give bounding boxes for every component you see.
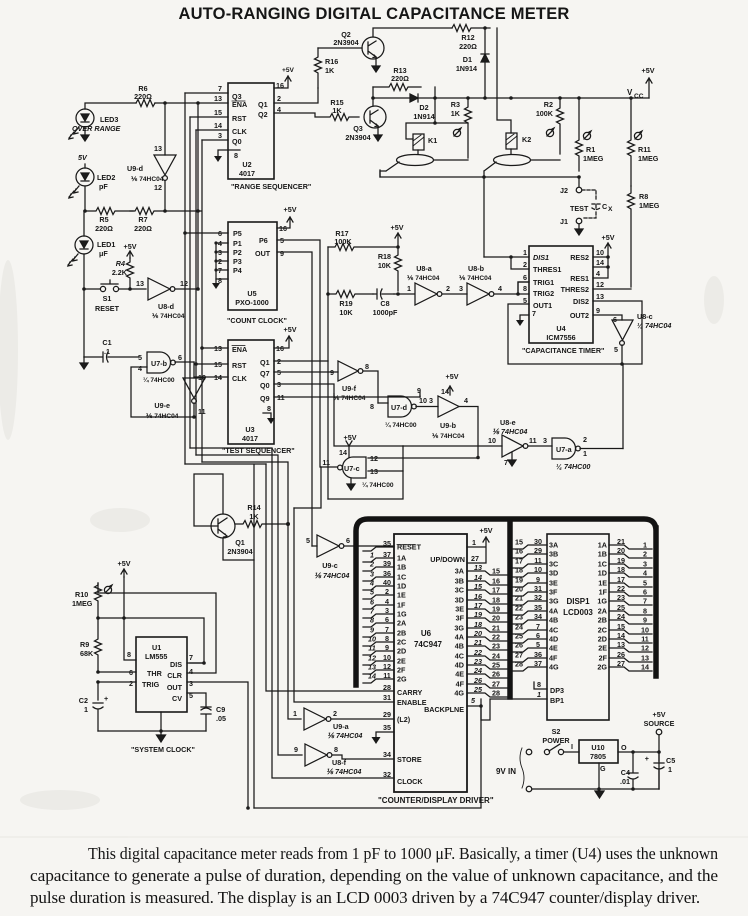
svg-text:THRES1: THRES1: [533, 265, 561, 274]
svg-text:R18: R18: [378, 252, 391, 261]
svg-text:7: 7: [189, 653, 193, 662]
bus turn x=196 to x=278: [196, 455, 302, 755]
svg-text:LED2: LED2: [97, 173, 115, 182]
svg-text:21: 21: [473, 638, 482, 647]
svg-text:U4: U4: [556, 324, 565, 333]
IC U3 4017 test sequencer: [214, 340, 285, 444]
svg-text:LCD003: LCD003: [563, 608, 593, 617]
svg-text:4A: 4A: [549, 607, 558, 616]
svg-text:32: 32: [383, 770, 391, 779]
svg-text:1000pF: 1000pF: [373, 308, 398, 317]
node wire to K1 coil: [406, 123, 468, 139]
svg-text:"TEST SEQUENCER": "TEST SEQUENCER": [222, 446, 295, 455]
svg-text:3E: 3E: [455, 605, 464, 614]
svg-text:U8-a: U8-a: [416, 264, 433, 273]
svg-text:THR: THR: [147, 669, 163, 678]
svg-text:19: 19: [617, 556, 625, 565]
trimmer arrow R11: [634, 131, 642, 140]
svg-text:8: 8: [365, 362, 369, 371]
Q2 emitter ground: [372, 57, 380, 72]
svg-text:BP1: BP1: [550, 696, 564, 705]
svg-text:2C: 2C: [397, 638, 406, 647]
wire U8-b out to TRIG: [494, 282, 529, 294]
wire Q3 collector up to R13: [372, 87, 374, 106]
U2 pin16 +5V: [274, 76, 291, 88]
svg-text:27: 27: [471, 554, 479, 563]
wire U1 DIS pin7: [187, 662, 204, 664]
svg-text:4F: 4F: [456, 680, 465, 689]
svg-text:17: 17: [474, 601, 483, 610]
svg-text:7805: 7805: [590, 752, 606, 761]
resistor R4: [112, 258, 134, 287]
bus turn x=190 to x=272: [190, 448, 394, 778]
svg-text:1MEG: 1MEG: [638, 154, 659, 163]
node junction 85,211: [83, 209, 87, 213]
svg-text:6: 6: [178, 353, 182, 362]
svg-text:DISP1: DISP1: [566, 597, 590, 606]
svg-text:7: 7: [218, 84, 222, 93]
svg-text:1: 1: [472, 538, 476, 547]
wire U5 OUT to vertical: [277, 252, 312, 546]
svg-text:3: 3: [218, 131, 222, 140]
node junction at 198,103: [196, 101, 200, 105]
svg-text:31: 31: [534, 584, 542, 593]
inverter U8-d: [128, 278, 200, 320]
svg-text:1: 1: [84, 705, 88, 714]
svg-text:20: 20: [473, 629, 482, 638]
svg-text:11: 11: [641, 635, 649, 644]
svg-text:29: 29: [383, 710, 391, 719]
svg-text:13: 13: [596, 292, 604, 301]
resistor R3: [451, 98, 472, 158]
svg-text:D1: D1: [463, 55, 472, 64]
svg-text:1B: 1B: [598, 550, 607, 559]
svg-text:⅙ 74HC04: ⅙ 74HC04: [152, 312, 185, 320]
inverter U9-d: [127, 144, 176, 192]
svg-text:37: 37: [534, 659, 542, 668]
svg-text:68K: 68K: [80, 649, 94, 658]
svg-text:U9-e: U9-e: [154, 401, 170, 410]
inverter U8-e: [403, 418, 552, 467]
svg-text:2E: 2E: [598, 644, 607, 653]
svg-text:40: 40: [383, 578, 391, 587]
svg-text:9: 9: [385, 643, 389, 652]
IC U6 74C947 counter/display driver: [394, 534, 467, 792]
test node rail: [380, 170, 579, 177]
bus vertical x=196: [195, 130, 197, 455]
svg-text:3: 3: [643, 560, 647, 569]
wire THRES2 to R8 chain: [593, 288, 631, 290]
svg-text:3C: 3C: [455, 586, 464, 595]
svg-text:2D: 2D: [397, 647, 406, 656]
capacitor C5: [645, 750, 675, 789]
svg-text:2B: 2B: [397, 629, 406, 638]
svg-text:1MEG: 1MEG: [639, 201, 660, 210]
svg-text:8: 8: [334, 745, 338, 754]
resistor R11: [628, 98, 659, 186]
svg-text:5: 5: [471, 696, 476, 705]
svg-text:DP3: DP3: [550, 686, 564, 695]
svg-text:1K: 1K: [332, 106, 342, 115]
wire LED2 to row 211: [84, 186, 86, 211]
svg-text:21: 21: [617, 537, 625, 546]
svg-text:4C: 4C: [549, 626, 558, 635]
svg-text:U9-f: U9-f: [342, 384, 357, 393]
svg-text:7: 7: [385, 625, 389, 634]
svg-text:22: 22: [492, 633, 500, 642]
svg-text:.01: .01: [620, 777, 630, 786]
svg-text:220Ω: 220Ω: [459, 42, 477, 51]
wire U9-d pin13 up to ENA line: [164, 103, 166, 155]
vertical x=198 U8-d out up to ENA: [197, 103, 199, 289]
svg-text:RESET: RESET: [397, 543, 422, 552]
svg-text:R10: R10: [75, 590, 88, 599]
wire U7-b pin4 feedback loop: [131, 367, 194, 417]
svg-text:3: 3: [459, 284, 463, 293]
wire U7-b out to U9-e: [175, 361, 194, 363]
resistor R2: [536, 98, 564, 154]
svg-text:8: 8: [643, 607, 647, 616]
svg-text:CARRY: CARRY: [397, 688, 422, 697]
svg-text:+5V: +5V: [344, 433, 357, 442]
wire U9-d pin12 down to row 211: [164, 181, 166, 211]
svg-text:3A: 3A: [455, 567, 464, 576]
svg-text:39: 39: [383, 559, 391, 568]
svg-text:22: 22: [473, 648, 482, 657]
trimmer arrow K2 side: [546, 128, 554, 137]
wire U3 CLK to U9-e node: [194, 376, 228, 378]
svg-text:AUTO-RANGING DIGITAL CAPACITAN: AUTO-RANGING DIGITAL CAPACITANCE METER: [178, 5, 569, 23]
svg-text:20: 20: [515, 585, 523, 594]
svg-text:U8-d: U8-d: [158, 302, 174, 311]
wire Q1 base loop: [194, 474, 223, 526]
svg-text:2.2K: 2.2K: [112, 268, 128, 277]
svg-text:Q3: Q3: [353, 124, 363, 133]
U6 left pin rows: [363, 539, 422, 684]
svg-text:1E: 1E: [397, 591, 406, 600]
svg-text:2A: 2A: [598, 607, 607, 616]
svg-text:G: G: [600, 764, 606, 773]
svg-text:28: 28: [515, 660, 523, 669]
svg-text:1K: 1K: [325, 66, 335, 75]
svg-text:RES2: RES2: [570, 253, 589, 262]
svg-text:22: 22: [617, 584, 625, 593]
svg-text:OUT: OUT: [167, 683, 183, 692]
NAND U7-a: [552, 435, 623, 471]
svg-text:CLK: CLK: [232, 127, 248, 136]
svg-text:capacitance to generate a puls: capacitance to generate a pulse of durat…: [30, 866, 718, 885]
svg-text:12: 12: [596, 280, 604, 289]
svg-text:1: 1: [293, 709, 297, 718]
svg-text:O: O: [621, 743, 627, 752]
svg-text:3: 3: [370, 570, 374, 579]
+5V above R18: [395, 233, 401, 247]
svg-text:BACKPLNE: BACKPLNE: [424, 705, 464, 714]
svg-text:14: 14: [474, 573, 482, 582]
wire LED3 anode to R6: [85, 103, 136, 109]
svg-text:1: 1: [583, 449, 587, 458]
svg-text:UP/DOWN: UP/DOWN: [430, 555, 465, 564]
svg-text:¼ 74HC04: ¼ 74HC04: [637, 321, 671, 330]
U6 right pin rows: [454, 563, 507, 698]
transistor Q3: [345, 106, 386, 142]
svg-text:9: 9: [294, 745, 298, 754]
U5 pin8 ground: [216, 279, 228, 283]
diode D1: [456, 26, 489, 98]
node junction 198,211: [196, 209, 200, 213]
NAND U7-b: [138, 352, 182, 384]
svg-text:C8: C8: [380, 299, 389, 308]
U3 pin8 ground: [263, 413, 271, 418]
svg-text:4C: 4C: [455, 652, 464, 661]
IC U1 LM555 system clock: [127, 637, 193, 712]
svg-text:14: 14: [641, 663, 649, 672]
svg-text:13: 13: [154, 144, 162, 153]
svg-text:4A: 4A: [455, 633, 464, 642]
svg-text:9V IN: 9V IN: [496, 767, 516, 776]
ground below LED3: [81, 127, 89, 141]
svg-text:ICM7556: ICM7556: [546, 333, 575, 342]
svg-text:⅙ 74HC04: ⅙ 74HC04: [407, 274, 440, 282]
svg-text:14: 14: [441, 387, 449, 396]
svg-text:+5V: +5V: [118, 559, 131, 568]
NAND U7-d: [370, 386, 427, 429]
svg-text:25: 25: [492, 661, 500, 670]
svg-text:24: 24: [492, 652, 500, 661]
svg-text:23: 23: [473, 657, 482, 666]
resistor R13: [373, 84, 421, 91]
svg-text:1: 1: [370, 551, 374, 560]
svg-text:4017: 4017: [239, 169, 255, 178]
svg-text:2B: 2B: [598, 616, 607, 625]
svg-text:18: 18: [492, 596, 500, 605]
svg-text:11: 11: [322, 458, 330, 467]
svg-text:1: 1: [407, 284, 411, 293]
resistor R12: [452, 25, 490, 32]
svg-text:U7-d: U7-d: [391, 403, 407, 412]
svg-text:¼ 74HC00: ¼ 74HC00: [362, 481, 394, 489]
svg-text:35: 35: [383, 539, 391, 548]
svg-text:This digital capacitance meter: This digital capacitance meter reads fro…: [88, 844, 719, 863]
svg-text:13: 13: [617, 640, 625, 649]
svg-text:2: 2: [446, 284, 450, 293]
svg-text:2: 2: [385, 587, 389, 596]
svg-text:Q0: Q0: [232, 137, 242, 146]
svg-text:25: 25: [473, 685, 483, 694]
svg-text:4: 4: [369, 579, 374, 588]
svg-text:P2: P2: [233, 248, 242, 257]
svg-text:2: 2: [583, 435, 587, 444]
svg-text:3F: 3F: [456, 614, 465, 623]
capacitor Cx with dashed links: [570, 190, 613, 218]
U4 TRIG1 strap: [518, 282, 529, 293]
svg-text:8: 8: [537, 680, 541, 689]
svg-text:3E: 3E: [549, 579, 558, 588]
svg-text:U2: U2: [242, 160, 251, 169]
svg-text:2N3904: 2N3904: [227, 547, 252, 556]
svg-text:CLK: CLK: [232, 374, 248, 383]
wire U2 Q0 to bus: [202, 139, 228, 141]
svg-text:8: 8: [370, 402, 374, 411]
svg-text:13: 13: [641, 654, 649, 663]
svg-text:V: V: [627, 88, 633, 97]
svg-text:2: 2: [129, 679, 133, 688]
svg-text:U9-d: U9-d: [127, 164, 143, 173]
capacitor C9: [201, 705, 226, 731]
wire Q1 emitter: [223, 538, 254, 560]
svg-text:CC: CC: [634, 93, 644, 100]
svg-text:SOURCE: SOURCE: [644, 719, 675, 728]
svg-text:U10: U10: [591, 743, 604, 752]
trimmer arrow K1 side: [453, 128, 461, 137]
svg-text:C1: C1: [102, 338, 111, 347]
svg-text:28: 28: [492, 689, 500, 698]
svg-text:LM555: LM555: [145, 652, 167, 661]
svg-text:RES1: RES1: [570, 274, 589, 283]
svg-text:3B: 3B: [549, 550, 558, 559]
svg-text:8: 8: [127, 650, 131, 659]
svg-text:25: 25: [617, 603, 625, 612]
svg-text:6: 6: [643, 588, 647, 597]
svg-text:8: 8: [234, 151, 238, 160]
svg-text:Q0: Q0: [260, 381, 270, 390]
svg-text:4E: 4E: [549, 644, 558, 653]
svg-text:7: 7: [504, 458, 508, 467]
svg-text:⅙ 74HC04: ⅙ 74HC04: [314, 571, 349, 580]
svg-text:4: 4: [385, 597, 389, 606]
wire U3 Q7 to U9-f: [274, 371, 338, 373]
svg-text:⅙ 74HC04: ⅙ 74HC04: [459, 274, 492, 282]
svg-text:K1: K1: [428, 136, 437, 145]
LED2: [69, 168, 115, 198]
connector J1: [560, 217, 583, 235]
svg-text:35: 35: [383, 723, 391, 732]
svg-text:5: 5: [643, 579, 647, 588]
svg-text:LED1: LED1: [97, 240, 115, 249]
svg-text:20: 20: [492, 614, 500, 623]
wire U2 pin7 to bus: [185, 92, 228, 94]
ground below C1: [80, 357, 88, 369]
svg-text:Q2: Q2: [258, 110, 268, 119]
wire DIS2 right: [593, 301, 642, 364]
svg-text:+5V: +5V: [282, 67, 295, 74]
svg-text:14: 14: [368, 672, 376, 681]
svg-text:34: 34: [383, 750, 391, 759]
U5 P1-P4 strapping: [216, 243, 228, 279]
svg-text:1N914: 1N914: [413, 112, 434, 121]
svg-text:R11: R11: [638, 145, 651, 154]
svg-text:26: 26: [515, 641, 523, 650]
svg-text:J2: J2: [560, 186, 568, 195]
svg-text:1: 1: [643, 541, 647, 550]
LED3: [69, 109, 121, 139]
svg-text:27: 27: [492, 680, 500, 689]
svg-text:9: 9: [330, 368, 334, 377]
U1 ground rail: [98, 712, 206, 731]
svg-text:22: 22: [515, 604, 523, 613]
svg-text:P3: P3: [233, 257, 242, 266]
svg-text:4: 4: [464, 396, 468, 405]
svg-text:+: +: [104, 694, 108, 703]
svg-text:31: 31: [383, 693, 391, 702]
svg-text:5: 5: [370, 588, 375, 597]
svg-text:4: 4: [643, 569, 647, 578]
svg-text:LED3: LED3: [100, 115, 118, 124]
resistor R6: [136, 100, 155, 107]
svg-text:U5: U5: [247, 289, 256, 298]
svg-text:+5V: +5V: [391, 223, 404, 232]
svg-text:4: 4: [189, 667, 193, 676]
svg-text:3C: 3C: [549, 560, 558, 569]
svg-text:4: 4: [596, 269, 600, 278]
svg-text:13: 13: [368, 663, 376, 672]
bus turn x=185 to x=254: [185, 464, 266, 808]
svg-text:1B: 1B: [397, 563, 406, 572]
svg-text:6: 6: [346, 536, 350, 545]
Vcc rail: [435, 97, 649, 99]
wire U1 TRIG: [98, 681, 136, 683]
trimmer arrow R1: [583, 131, 591, 140]
svg-text:17: 17: [492, 586, 500, 595]
svg-text:DIS1: DIS1: [533, 253, 549, 262]
svg-text:10: 10: [596, 248, 604, 257]
svg-text:X: X: [608, 206, 613, 213]
svg-text:P1: P1: [233, 239, 242, 248]
capacitor C8: [373, 289, 400, 317]
svg-text:5: 5: [536, 640, 540, 649]
svg-text:μF: μF: [99, 249, 108, 258]
wire U2 RST to bus: [190, 116, 228, 118]
svg-text:DIS2: DIS2: [573, 297, 589, 306]
svg-text:4B: 4B: [455, 642, 464, 651]
svg-text:CLOCK: CLOCK: [397, 777, 423, 786]
svg-text:2D: 2D: [598, 635, 607, 644]
svg-text:3: 3: [385, 606, 389, 615]
relay K2 contact: [484, 149, 560, 177]
svg-text:36: 36: [534, 650, 542, 659]
svg-text:R16: R16: [325, 57, 338, 66]
svg-text:⅙ 74HC04: ⅙ 74HC04: [326, 767, 361, 776]
svg-text:4017: 4017: [242, 434, 258, 443]
svg-text:U8-c: U8-c: [637, 312, 653, 321]
svg-text:1E: 1E: [598, 579, 607, 588]
svg-text:23: 23: [515, 613, 523, 622]
svg-text:1K: 1K: [451, 109, 461, 118]
svg-text:9: 9: [280, 249, 284, 258]
svg-text:18: 18: [617, 565, 625, 574]
svg-text:220Ω: 220Ω: [134, 92, 152, 101]
IC U2 4017 range sequencer: [214, 81, 284, 179]
svg-text:J1: J1: [560, 217, 568, 226]
svg-text:⅙ 74HC04: ⅙ 74HC04: [432, 432, 465, 440]
resistor R18: [378, 247, 402, 291]
svg-text:C2: C2: [79, 696, 88, 705]
svg-text:4D: 4D: [455, 661, 464, 670]
svg-text:9: 9: [596, 306, 600, 315]
svg-text:10: 10: [641, 626, 649, 635]
svg-text:Q1: Q1: [235, 538, 245, 547]
svg-text:100K: 100K: [334, 237, 352, 246]
svg-text:1D: 1D: [598, 569, 607, 578]
svg-text:P5: P5: [233, 229, 242, 238]
svg-text:2: 2: [369, 560, 374, 569]
svg-text:3D: 3D: [549, 569, 558, 578]
U2 pin8 ground: [218, 150, 240, 156]
svg-text:220Ω: 220Ω: [95, 224, 113, 233]
svg-text:+5V: +5V: [284, 205, 297, 214]
+5V above R4: [127, 251, 133, 258]
svg-text:1: 1: [537, 690, 541, 699]
